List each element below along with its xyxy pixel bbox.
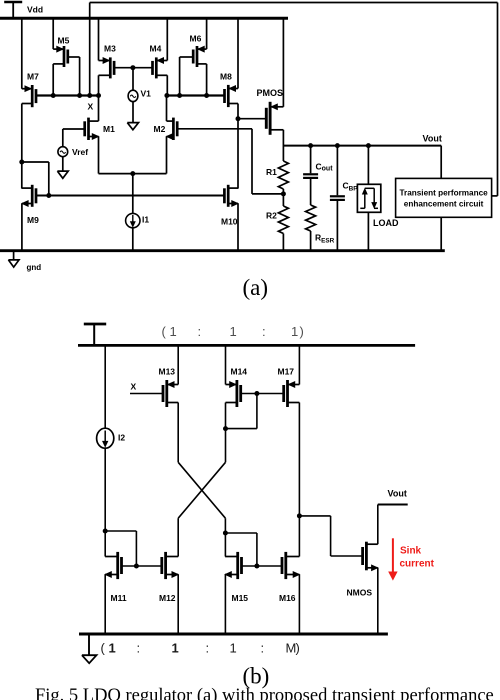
wire Vout (b): [378, 504, 408, 506]
wire tail to I1: [132, 174, 134, 214]
svg-text:Vout: Vout: [423, 133, 442, 143]
svg-text:M8: M8: [220, 71, 232, 81]
wire M11 source to rail: [104, 575, 106, 635]
label V1: [141, 89, 152, 99]
transistor M8: [225, 85, 239, 107]
wire Vout to enhancement circuit: [440, 146, 442, 179]
svg-text:enhancement circuit: enhancement circuit: [404, 199, 484, 208]
wire M15 drain up: [224, 533, 226, 557]
transistor M14: [226, 380, 241, 407]
svg-text:M2: M2: [154, 124, 166, 134]
svg-text::: :: [198, 324, 202, 339]
label X (b): [131, 381, 137, 391]
wire M7 source to Vdd: [21, 18, 23, 88]
wire M2 source to tail: [166, 137, 168, 174]
wire PMOS source to Vdd: [282, 18, 284, 107]
svg-text:V1: V1: [141, 89, 152, 99]
transistor PMOS (pass device): [266, 102, 283, 135]
wire R1 to feedback node: [282, 189, 284, 194]
svg-text:M14: M14: [231, 367, 248, 377]
label M15: [232, 593, 249, 603]
svg-text:): ): [296, 641, 300, 656]
wire M2 drain up: [166, 96, 168, 122]
node M15 drain junction: [223, 531, 228, 536]
svg-text:Vref: Vref: [72, 147, 88, 157]
power symbol (b): [84, 324, 106, 345]
transistor M1: [85, 118, 99, 140]
label X: [88, 101, 94, 111]
svg-text:Sink: Sink: [400, 546, 422, 557]
wire M9-M10 gate line: [36, 195, 225, 197]
label Vref: [72, 147, 88, 157]
label M11: [111, 593, 127, 603]
wire M4 gate to V1 node: [133, 67, 153, 69]
node feedback divider junction: [281, 191, 286, 196]
source V1: [128, 90, 138, 101]
caption (b): [243, 664, 270, 689]
wire M12 source to rail: [177, 575, 179, 635]
svg-text:1: 1: [291, 324, 298, 339]
transistor M7: [22, 85, 36, 107]
transistor M12: [162, 552, 178, 579]
wire M3 gate to V1 node: [114, 67, 133, 69]
svg-text:M5: M5: [58, 36, 70, 46]
transistor M13: [163, 380, 178, 407]
label I2: [118, 433, 125, 443]
node M16-M17 drain junction: [297, 513, 302, 518]
figure caption: [35, 686, 494, 700]
svg-text:R2: R2: [266, 211, 277, 221]
wire M9 source to ground: [21, 204, 23, 251]
svg-text:(a): (a): [243, 275, 269, 300]
label Vout: [423, 133, 442, 143]
wire cross-coupled M14 drain to M12 drain: [178, 462, 225, 556]
svg-text:gnd: gnd: [27, 263, 42, 272]
block transient performance enhancement circuit: [396, 178, 492, 217]
wire PMOS drain to output: [282, 130, 284, 161]
transistor M6: [193, 46, 206, 67]
wire NMOS source to rail: [377, 568, 379, 634]
wire M3 drain to node X: [98, 75, 100, 95]
svg-text:M11: M11: [111, 593, 127, 603]
svg-text::: :: [137, 641, 141, 656]
label PMOS: [257, 88, 284, 98]
capacitor Cout: [303, 146, 318, 205]
svg-text:M9: M9: [27, 215, 39, 225]
wire M4 drain down: [166, 75, 168, 95]
wire R2 to ground: [282, 234, 284, 251]
annotation sink current arrow: [389, 538, 397, 579]
label M9: [27, 215, 39, 225]
wire M10 source to ground: [237, 204, 239, 251]
ground rail of (b): [79, 633, 388, 636]
net label gnd: [27, 263, 42, 272]
svg-text:(b): (b): [243, 664, 270, 689]
resistor R1: [278, 161, 288, 189]
wire feedback from enhancement circuit to node X (top): [90, 3, 498, 196]
label R1: [266, 167, 277, 177]
svg-text:): ): [300, 324, 304, 339]
svg-text:Transient performance: Transient performance: [399, 188, 488, 197]
label M3: [104, 44, 116, 54]
wire M7 drain down to M9: [21, 104, 23, 189]
svg-text:1: 1: [170, 324, 177, 339]
wire M13 drain down: [177, 403, 179, 463]
wire V1 to ground: [132, 102, 134, 123]
wire M17 source to rail: [298, 345, 300, 384]
svg-text:M16: M16: [279, 593, 296, 603]
transistor M10: [224, 185, 238, 207]
svg-text:Vout: Vout: [388, 489, 407, 499]
current source I2: [97, 428, 114, 448]
ground of Vref: [57, 171, 68, 178]
wire M3 source to Vdd: [98, 18, 100, 60]
wire M13 source to rail: [177, 345, 179, 384]
svg-text:1: 1: [172, 641, 179, 656]
ground symbol gnd: [8, 251, 19, 267]
label M1: [103, 124, 115, 134]
transistor M15: [225, 552, 241, 579]
node M7 drain / M9 gate junction: [19, 160, 49, 196]
ratio label (1 : 1 : 1): [162, 324, 304, 339]
svg-text:I2: I2: [118, 433, 125, 443]
label Vout (b): [388, 489, 407, 499]
svg-text:X: X: [88, 101, 94, 111]
wire M5 source to Vdd: [52, 18, 54, 49]
node M14 gate junction: [254, 391, 259, 396]
ground rail of (a): [0, 249, 445, 252]
load LOAD box: [357, 184, 380, 212]
wire output to LOAD: [367, 146, 369, 185]
svg-text:LOAD: LOAD: [373, 218, 399, 228]
net label Vdd: [27, 5, 43, 15]
svg-text:M4: M4: [150, 44, 162, 54]
svg-text:X: X: [131, 381, 137, 391]
wire M4 source to Vdd: [166, 18, 168, 60]
wire V1 to gates of M3 M4: [132, 68, 134, 91]
capacitor CBP: [330, 146, 345, 251]
transistor M11: [105, 552, 121, 579]
power symbol Vdd: [4, 2, 22, 18]
wire M11 drain up: [104, 531, 106, 557]
svg-text:M13: M13: [159, 367, 176, 377]
wire M1 drain to node X: [98, 96, 100, 122]
node PMOS gate junction: [236, 116, 241, 121]
label LOAD: [373, 218, 399, 228]
label M4: [150, 44, 162, 54]
wire I2 to M11 drain: [104, 448, 106, 531]
svg-text:R1: R1: [266, 167, 277, 177]
label M16: [279, 593, 296, 603]
transistor M16: [282, 552, 299, 579]
wire M8 drain to M10 drain: [237, 104, 239, 189]
label M13: [159, 367, 176, 377]
svg-text:1: 1: [230, 641, 237, 656]
node M14 drain junction: [223, 426, 228, 431]
resistor RESR: [306, 205, 316, 231]
label M7: [27, 71, 39, 81]
node X bus: [36, 93, 101, 98]
svg-text:M17: M17: [278, 367, 295, 377]
svg-text:(: (: [162, 324, 167, 339]
svg-text:NMOS: NMOS: [347, 588, 373, 598]
Vdd rail: [0, 17, 288, 20]
transistor M9: [22, 185, 36, 207]
svg-text:PMOS: PMOS: [257, 88, 284, 98]
node tail junction: [130, 171, 135, 176]
source Vref: [58, 129, 68, 157]
label CBP: [343, 181, 359, 193]
wire M15 gate tie: [225, 533, 257, 567]
transistor M2: [167, 118, 178, 140]
svg-text::: :: [206, 641, 210, 656]
node I2-M11 junction: [103, 529, 108, 534]
wire LOAD to ground: [367, 212, 369, 250]
wire M1 source to tail: [98, 137, 100, 174]
label M8: [220, 71, 232, 81]
wire enhancement circuit to ground: [440, 217, 442, 250]
wire I1 to ground rail: [132, 228, 134, 251]
svg-text:M15: M15: [232, 593, 249, 603]
wire PMOS gate: [238, 118, 266, 120]
label M6: [190, 34, 202, 44]
wire cross-coupled M13 drain to M15 drain: [178, 462, 225, 533]
svg-text:M7: M7: [27, 71, 39, 81]
transistor M17: [284, 380, 300, 407]
wire RESR to ground: [310, 231, 312, 251]
wire NMOS drain to Vout: [377, 505, 379, 545]
wire M14-M17 gate line: [241, 393, 283, 395]
ground symbol of (b): [82, 634, 97, 663]
caption (a): [243, 275, 269, 300]
label M17: [278, 367, 295, 377]
label RESR: [315, 233, 335, 245]
wire M8 source to Vdd: [237, 18, 239, 88]
wire output node Vout: [283, 143, 441, 148]
wire X to M13 gate: [130, 393, 163, 395]
node M11-M12 gate junction: [134, 564, 139, 569]
svg-text:1: 1: [230, 324, 237, 339]
svg-text::: :: [262, 324, 266, 339]
wire M6 drain down: [206, 64, 208, 96]
transistor M4: [153, 57, 168, 78]
wire M14 drain down: [225, 403, 227, 463]
svg-text:(: (: [101, 641, 106, 656]
current source I1: [126, 213, 140, 227]
transistor M3: [99, 57, 115, 78]
resistor R2: [278, 194, 288, 234]
label M2: [154, 124, 166, 134]
wire M14 gate-drain tie: [226, 394, 257, 429]
svg-text:M12: M12: [159, 593, 176, 603]
wire enhancement circuit output: [492, 195, 498, 197]
wire M11-M12 gate line: [121, 565, 161, 567]
wire M1 gate to Vref: [63, 128, 85, 130]
svg-text:Vdd: Vdd: [27, 5, 43, 15]
wire Vref to ground: [62, 157, 64, 171]
node M9 gate-drain junction: [46, 193, 51, 198]
transistor NMOS: [363, 542, 378, 571]
label M5: [58, 36, 70, 46]
load pulse symbol: [360, 188, 378, 208]
ground of V1: [127, 123, 138, 130]
label M14: [231, 367, 248, 377]
wire M2 gate to feedback node: [177, 129, 283, 194]
svg-text:M1: M1: [103, 124, 115, 134]
supply rail of (b): [78, 344, 415, 347]
transistor M5: [53, 46, 68, 67]
wire M5 gate to node X: [68, 57, 80, 96]
svg-text:1: 1: [109, 641, 116, 656]
wire M6 gate down: [180, 57, 194, 96]
svg-text:M10: M10: [221, 217, 238, 227]
wire to NMOS gate: [299, 516, 362, 556]
wire M15 source to rail: [224, 575, 226, 635]
svg-text:M6: M6: [190, 34, 202, 44]
wire M16 drain up: [298, 516, 300, 557]
label I1: [142, 215, 149, 225]
wire M5 drain to node X: [52, 64, 54, 96]
label M10: [221, 217, 238, 227]
wire M11 gate tie: [105, 531, 136, 567]
label M12: [159, 593, 176, 603]
wire M15-M16 gate line: [242, 565, 283, 567]
wire second stage bus: [164, 93, 224, 98]
wire M6 source to Vdd: [206, 18, 208, 49]
svg-text::: :: [261, 641, 265, 656]
svg-text:M3: M3: [104, 44, 116, 54]
wire M17 drain down: [298, 403, 300, 516]
annotation label Sink current: [400, 546, 435, 570]
node M15-M16 gate junction: [254, 564, 259, 569]
svg-text:current: current: [400, 559, 435, 570]
svg-text:Fig. 5 LDO regulator (a) with: Fig. 5 LDO regulator (a) with proposed t…: [35, 686, 494, 700]
label NMOS: [347, 588, 373, 598]
wire M16 source to rail: [298, 575, 300, 635]
label R2: [266, 211, 277, 221]
wire differential pair tail: [99, 173, 167, 175]
label Cout: [316, 162, 334, 173]
node V1 top junction: [130, 65, 135, 70]
wire rail to I2: [104, 345, 106, 428]
ratio label (1 : 1 : 1 : M): [101, 641, 300, 656]
svg-text:I1: I1: [142, 215, 149, 225]
wire M14 source to rail: [225, 345, 227, 384]
